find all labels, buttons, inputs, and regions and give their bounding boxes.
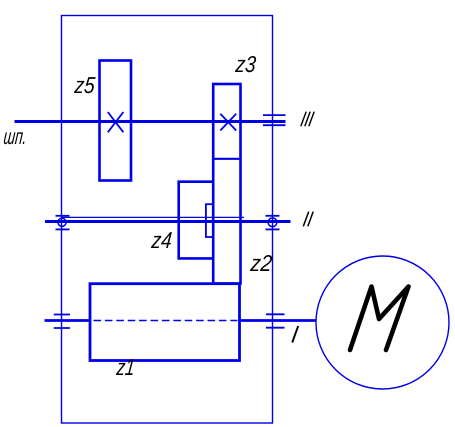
shaft II upper thin line: [62, 216, 244, 218]
shaft I left segment: [45, 319, 91, 322]
shaft III (spindle): [15, 120, 286, 123]
fixed joint cross on z3: [220, 114, 236, 131]
svg-text:z1: z1: [115, 354, 136, 380]
svg-text:шп.: шп.: [2, 124, 28, 149]
shaft I dashed centerline: [94, 320, 238, 322]
gear z1: [90, 284, 240, 361]
shaft II: [45, 220, 291, 223]
hub on shaft II: [206, 204, 213, 237]
svg-text:z2: z2: [249, 250, 274, 276]
svg-text:z4: z4: [150, 227, 174, 253]
gear z4: [179, 182, 213, 259]
gear block z3/z2: [213, 84, 240, 284]
label III (shaft III): [301, 112, 314, 127]
motor letter M: [350, 287, 409, 351]
bearing shaft I right wall: [266, 314, 285, 327]
label II (shaft II): [303, 212, 313, 227]
bearing shaft I left wall: [54, 315, 70, 329]
motor circle: [316, 256, 449, 389]
svg-text:z5: z5: [73, 72, 97, 98]
svg-text:z3: z3: [234, 51, 258, 77]
gear z5: [100, 61, 132, 181]
ball bearing shaft II right wall: [266, 216, 280, 230]
divider between z3 and z2: [213, 158, 240, 160]
ball bearing shaft II left wall: [56, 216, 70, 230]
fixed joint cross on z5: [108, 112, 124, 132]
bearing shaft III right wall: [263, 115, 286, 125]
label I (shaft I): [292, 326, 298, 343]
shaft I right segment: [239, 319, 317, 322]
gearbox housing: [62, 16, 273, 424]
